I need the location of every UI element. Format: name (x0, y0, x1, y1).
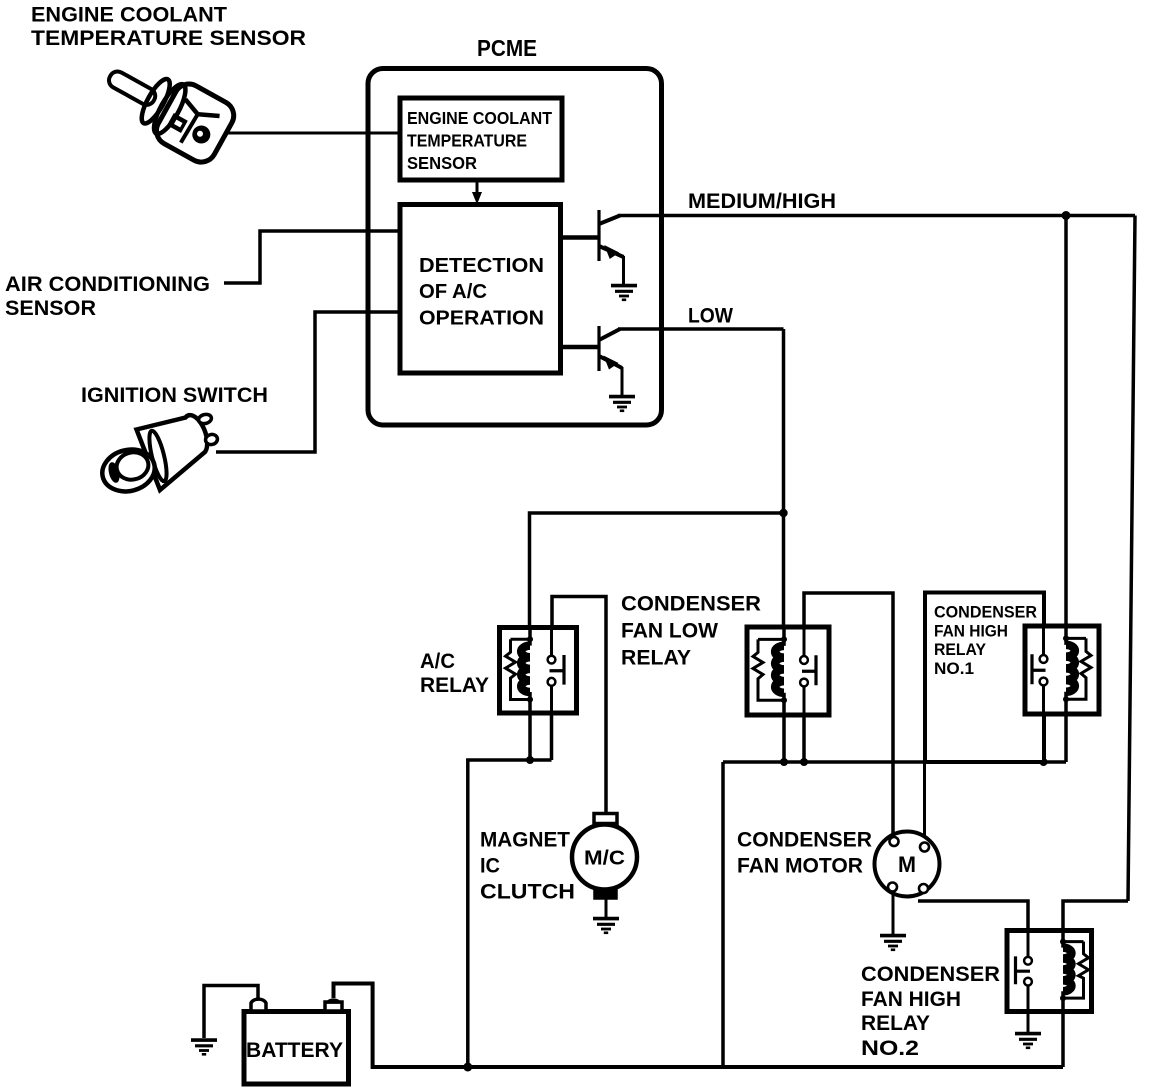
ground under condenser fan motor (880, 936, 906, 950)
svg-text:M/C: M/C (584, 848, 625, 870)
engine coolant temperature sensor (pictorial) (94, 47, 239, 167)
wire: Q1 emitter drop (622, 256, 625, 284)
wire: fan high relay no.1 coil bottom (1064, 712, 1068, 762)
node: battery line junction (463, 1063, 472, 1072)
ground under magnetic clutch (593, 919, 619, 933)
svg-text:TEMPERATURE SENSOR: TEMPERATURE SENSOR (31, 27, 306, 50)
svg-text:NO.2: NO.2 (861, 1037, 919, 1060)
svg-text:PCME: PCME (477, 35, 537, 61)
wire: battery negative to ground (204, 986, 258, 1039)
condenser fan low relay internals (753, 629, 816, 713)
svg-text:IC: IC (480, 855, 500, 878)
svg-text:IGNITION SWITCH: IGNITION SWITCH (81, 384, 268, 407)
wire: A/C relay contact to magnetic clutch (552, 597, 606, 817)
wire: fan motor ground lead (892, 890, 895, 934)
wire: condenser fan low relay contact to fan motor (804, 593, 893, 838)
transistor Q2 (low driver) (562, 326, 622, 371)
svg-text:ENGINE COOLANT: ENGINE COOLANT (31, 4, 227, 27)
svg-text:SENSOR: SENSOR (407, 153, 477, 173)
wire: A/C relay coil bottom (528, 712, 532, 760)
wire: ignition switch to PCME (216, 312, 400, 452)
wire: supply rail drop to battery line (721, 762, 725, 1067)
svg-text:AIR CONDITIONING: AIR CONDITIONING (5, 273, 210, 296)
svg-text:CONDENSER: CONDENSER (621, 593, 761, 616)
svg-text:RELAY: RELAY (621, 647, 691, 670)
battery box (244, 1012, 349, 1085)
node: rail junction at fan low relay contact (800, 758, 808, 766)
svg-text:LOW: LOW (688, 305, 733, 328)
battery terminal caps (251, 999, 342, 1011)
svg-text:DETECTION: DETECTION (419, 254, 544, 277)
svg-text:RELAY: RELAY (934, 641, 986, 659)
wire: supply rail to relays (723, 760, 1066, 764)
svg-text:RELAY: RELAY (420, 674, 489, 697)
svg-text:CONDENSER: CONDENSER (861, 963, 1000, 986)
node: A/C relay bottom junction (526, 756, 534, 764)
node: LOW branch junction (779, 509, 787, 517)
svg-text:RELAY: RELAY (861, 1012, 930, 1035)
svg-text:NO.1: NO.1 (934, 660, 974, 678)
transistor Q1 (medium/high driver) (562, 210, 624, 261)
PCME module outline (368, 69, 662, 426)
svg-text:CLUTCH: CLUTCH (480, 881, 575, 904)
wire: air conditioning sensor input to PCME (224, 231, 400, 283)
svg-text:CONDENSER: CONDENSER (934, 604, 1037, 622)
wire: MEDIUM/HIGH line (618, 214, 1135, 218)
wire: battery positive supply line (334, 984, 1064, 1068)
ignition switch (pictorial) (98, 413, 219, 497)
ground at battery negative (191, 1040, 217, 1054)
wire: ECT sensor to PCME sensor box (227, 132, 400, 135)
svg-text:ENGINE COOLANT: ENGINE COOLANT (407, 108, 552, 128)
svg-text:FAN HIGH: FAN HIGH (934, 623, 1008, 641)
wire: fan high relay no.2 coil to battery rail (1061, 1010, 1065, 1067)
wire: right leg to fan high relay no.2 coil (1063, 901, 1128, 933)
svg-text:M: M (898, 852, 916, 877)
svg-text:TEMPERATURE: TEMPERATURE (407, 131, 527, 151)
box: detection of A/C operation (400, 205, 561, 374)
condenser fan high relay no.1 internals (1032, 628, 1091, 712)
wire: fan high relay no.1 contact bottom (1042, 712, 1046, 762)
svg-text:FAN LOW: FAN LOW (621, 620, 718, 643)
svg-text:FAN HIGH: FAN HIGH (861, 988, 961, 1011)
wire: fan motor to fan high relay no.2 contact (918, 901, 1028, 933)
ground under Q1 (611, 286, 637, 300)
condenser fan high relay no.2 box (1007, 931, 1092, 1012)
wire: Q2 emitter drop (621, 367, 624, 395)
wire: branch from LOW node to A/C relay coil (530, 513, 784, 630)
ground under Q2 (609, 397, 635, 411)
A/C relay box (500, 628, 577, 714)
label box: condenser fan high relay no.1 (925, 593, 1044, 763)
condenser fan high relay no.2 internals (1016, 932, 1089, 1010)
wire: fan high relay no.2 contact to ground (1027, 1010, 1030, 1032)
condenser fan motor (875, 832, 940, 897)
magnetic clutch M/C motor (572, 814, 637, 899)
svg-text:MAGNET: MAGNET (480, 829, 570, 852)
svg-text:BATTERY: BATTERY (246, 1039, 343, 1062)
wire: fan low relay contact bottom (802, 712, 806, 762)
wire: LOW line (618, 327, 784, 331)
svg-text:OF A/C: OF A/C (419, 280, 487, 303)
node: rail junction at fan high relay no.1 contact (1040, 758, 1048, 766)
ground under fan high relay no.2 contact (1015, 1034, 1041, 1048)
wire: LOW line down to condenser fan low relay coil (782, 329, 786, 630)
wire: MEDIUM/HIGH right leg down (1128, 216, 1135, 902)
condenser fan high relay no.1 box (1025, 626, 1099, 714)
wire: fan motor upper right lead (923, 762, 926, 840)
wire: A/C relay contact bottom (550, 712, 554, 760)
svg-text:SENSOR: SENSOR (5, 297, 96, 320)
node: MEDIUM/HIGH junction (1062, 211, 1071, 220)
node: rail junction at fan low relay coil (780, 758, 788, 766)
arrow: sensor box to detection box (472, 180, 482, 205)
svg-text:OPERATION: OPERATION (419, 307, 544, 330)
wire: fan low relay coil bottom (782, 712, 786, 762)
wire: A/C relay feed rail (468, 760, 552, 1067)
wire: magnetic clutch to ground (605, 896, 608, 917)
svg-text:MEDIUM/HIGH: MEDIUM/HIGH (688, 190, 836, 213)
svg-text:A/C: A/C (420, 650, 455, 673)
wire: MEDIUM/HIGH down to fan high relay no.1 coil (1064, 216, 1068, 631)
svg-text:CONDENSER: CONDENSER (737, 829, 872, 852)
box: engine coolant temperature sensor (in PCME) (400, 98, 562, 180)
svg-text:FAN MOTOR: FAN MOTOR (737, 855, 863, 878)
condenser fan low relay box (747, 627, 829, 715)
A/C relay internals (coil, resistor, contact) (506, 629, 565, 712)
